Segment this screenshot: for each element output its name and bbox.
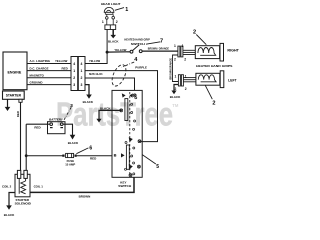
- arrow black left connector: [171, 91, 176, 95]
- svg-text:B: B: [114, 152, 117, 157]
- key switch B contact: [121, 153, 125, 157]
- leader 6: [76, 148, 88, 154]
- head light terminal 2: [112, 16, 115, 19]
- solenoid post left: [17, 170, 20, 178]
- svg-text:1: 1: [73, 69, 75, 73]
- solenoid post right: [24, 170, 27, 178]
- starter box: [3, 91, 25, 99]
- key switch box: [112, 90, 142, 177]
- svg-text:YELLOW: YELLOW: [114, 48, 126, 52]
- svg-text:15 AMP: 15 AMP: [65, 162, 75, 166]
- leader 5: [142, 155, 155, 164]
- head light leader 1: [115, 8, 124, 11]
- svg-text:2: 2: [185, 87, 187, 91]
- coil left grip: [198, 75, 216, 82]
- svg-text:YELLOW: YELLOW: [89, 59, 100, 63]
- svg-text:RIGHT: RIGHT: [227, 49, 239, 53]
- svg-text:1: 1: [125, 7, 128, 13]
- heated hand grip switch: [130, 45, 142, 53]
- ground arrow pin3 black: [86, 95, 92, 99]
- head light terminal 1: [106, 17, 109, 20]
- leader 2 left grip: [205, 85, 212, 99]
- connector 4-pin left half: [71, 57, 78, 91]
- wire battery negative: [63, 124, 73, 135]
- arrow black solenoid ground: [6, 205, 12, 209]
- wire fuse to key switch B: [77, 155, 112, 157]
- ground arrow starter: [7, 99, 9, 107]
- heated grip right box: [195, 43, 223, 61]
- svg-text:BROWN/ORANGE: BROWN/ORANGE: [169, 58, 173, 80]
- wire white/black: [85, 78, 135, 90]
- coil right grip: [198, 48, 216, 56]
- svg-text:7: 7: [160, 39, 163, 45]
- svg-text:YELLOW: YELLOW: [55, 59, 67, 63]
- svg-text:RED: RED: [62, 66, 69, 70]
- wire ground: [27, 84, 71, 86]
- svg-text:3: 3: [70, 103, 73, 108]
- key switch contact bar lower: [126, 145, 129, 169]
- svg-text:PURPLE: PURPLE: [135, 65, 147, 69]
- svg-text:BLACK: BLACK: [100, 107, 111, 111]
- svg-text:A.C. LIGHTING: A.C. LIGHTING: [30, 59, 51, 63]
- svg-text:RED: RED: [16, 110, 20, 117]
- key switch small circles: [135, 97, 137, 99]
- svg-text:3: 3: [81, 83, 83, 87]
- head light bulb: [104, 7, 124, 52]
- svg-text:WHITE / BLACK: WHITE / BLACK: [89, 72, 103, 76]
- wire key switch bottom to solenoid: [30, 177, 134, 192]
- wire DC charge: [27, 70, 71, 72]
- leader 2 right grip: [196, 35, 206, 45]
- wires connector to left grip: [183, 77, 196, 79]
- svg-text:GROUND: GROUND: [30, 80, 44, 84]
- svg-text:1: 1: [185, 75, 187, 79]
- solenoid coil: [19, 178, 25, 193]
- svg-text:2: 2: [81, 76, 83, 80]
- wire solenoid ground: [9, 193, 15, 206]
- wire junction to fuse: [26, 155, 63, 157]
- wires connector to right grip: [183, 49, 195, 51]
- connector pin numbers: [73, 62, 82, 87]
- svg-text:COIL 1: COIL 1: [34, 184, 44, 188]
- svg-text:BLACK: BLACK: [4, 213, 15, 217]
- svg-text:MAGNETO: MAGNETO: [30, 73, 45, 77]
- wire yellow to junction: [85, 52, 107, 63]
- svg-text:SOLENOID: SOLENOID: [15, 201, 31, 205]
- arrow black key switch ground: [96, 119, 101, 123]
- wire stub pin2 right connector: [173, 55, 179, 82]
- head light connector: [105, 25, 116, 30]
- right grip connector: [173, 46, 196, 81]
- key switch contact bar upper: [125, 99, 128, 121]
- svg-text:BLACK: BLACK: [68, 141, 79, 145]
- wire AC lighting: [27, 63, 71, 65]
- svg-text:BLACK: BLACK: [170, 95, 181, 99]
- svg-text:4: 4: [81, 62, 83, 66]
- svg-text:2: 2: [73, 76, 75, 80]
- wire battery left vertical: [25, 124, 27, 170]
- key switch dashed rotor line: [129, 92, 131, 176]
- svg-text:4: 4: [73, 62, 75, 66]
- svg-text:3: 3: [73, 83, 75, 87]
- dashed ellipse item 4: [109, 63, 129, 88]
- svg-text:2: 2: [116, 20, 118, 24]
- leader 4 dash-dot: [122, 62, 135, 67]
- wire battery positive: [26, 123, 50, 125]
- svg-text:RED: RED: [34, 125, 41, 129]
- svg-text:5: 5: [156, 164, 159, 170]
- svg-text:LEFT: LEFT: [228, 79, 236, 83]
- key switch terminals: [120, 94, 141, 177]
- junction node yellow: [106, 51, 109, 54]
- battery terminal plus: [50, 123, 53, 126]
- svg-text:COIL 2: COIL 2: [2, 184, 12, 188]
- wire yellow to switch: [107, 51, 130, 53]
- wire pin3 black stub: [85, 85, 89, 95]
- battery box: [48, 122, 66, 134]
- svg-text:1: 1: [81, 69, 83, 73]
- svg-text:2: 2: [184, 58, 186, 62]
- left grip connector: [174, 75, 196, 91]
- engine box: [3, 52, 27, 90]
- svg-text:SWITCH: SWITCH: [131, 42, 145, 46]
- svg-text:2: 2: [193, 30, 196, 36]
- wire stub black left connector: [174, 85, 178, 91]
- battery polarity marks: [50, 127, 53, 128]
- svg-text:TM: TM: [172, 103, 179, 108]
- wire starter to solenoid: [20, 102, 22, 170]
- svg-text:SWITCH: SWITCH: [118, 184, 131, 188]
- heated grip left box: [196, 71, 224, 88]
- svg-text:D.C. CHARGE: D.C. CHARGE: [30, 66, 49, 70]
- svg-text:HEAD LIGHT: HEAD LIGHT: [101, 2, 121, 6]
- junction node red: [25, 154, 28, 157]
- svg-text:6: 6: [89, 146, 92, 152]
- fuse clamp: [66, 153, 74, 157]
- svg-text:PartsTree: PartsTree: [56, 96, 173, 133]
- wire key switch ground: [99, 110, 121, 119]
- battery terminal minus: [60, 123, 63, 126]
- svg-text:BATTERY: BATTERY: [49, 118, 64, 122]
- svg-text:BROWN / ORANGE: BROWN / ORANGE: [148, 47, 169, 51]
- connector 4-pin right half: [78, 57, 85, 91]
- key switch arrows: [122, 93, 126, 97]
- svg-text:HEATED HAND GRIPS: HEATED HAND GRIPS: [196, 64, 232, 68]
- svg-text:BLACK: BLACK: [108, 40, 119, 44]
- svg-text:STARTER: STARTER: [6, 94, 22, 98]
- svg-text:1: 1: [102, 20, 104, 24]
- watermark PartsTree: [56, 96, 179, 133]
- starter post: [19, 99, 22, 102]
- svg-text:RED: RED: [90, 156, 97, 160]
- leader 3 dash-dot: [64, 107, 71, 120]
- wire head light right pin black: [112, 30, 114, 36]
- wire magneto: [27, 77, 71, 79]
- svg-text:1: 1: [175, 75, 177, 79]
- svg-text:BLACK: BLACK: [83, 100, 94, 104]
- leader 7: [146, 42, 160, 44]
- svg-text:1: 1: [182, 44, 184, 48]
- svg-text:2: 2: [174, 58, 176, 62]
- svg-text:BROWN: BROWN: [79, 194, 91, 198]
- wire purple: [85, 71, 158, 142]
- wire brown/orange to right grip: [142, 50, 178, 52]
- svg-text:1: 1: [174, 44, 176, 48]
- arrow black head light: [110, 35, 116, 39]
- wire head light left pin down: [106, 30, 108, 53]
- starter solenoid box: [15, 170, 30, 196]
- svg-text:2: 2: [175, 87, 177, 91]
- arrow black battery negative: [70, 135, 76, 140]
- svg-text:ENGINE: ENGINE: [8, 71, 22, 75]
- svg-text:2: 2: [212, 101, 215, 107]
